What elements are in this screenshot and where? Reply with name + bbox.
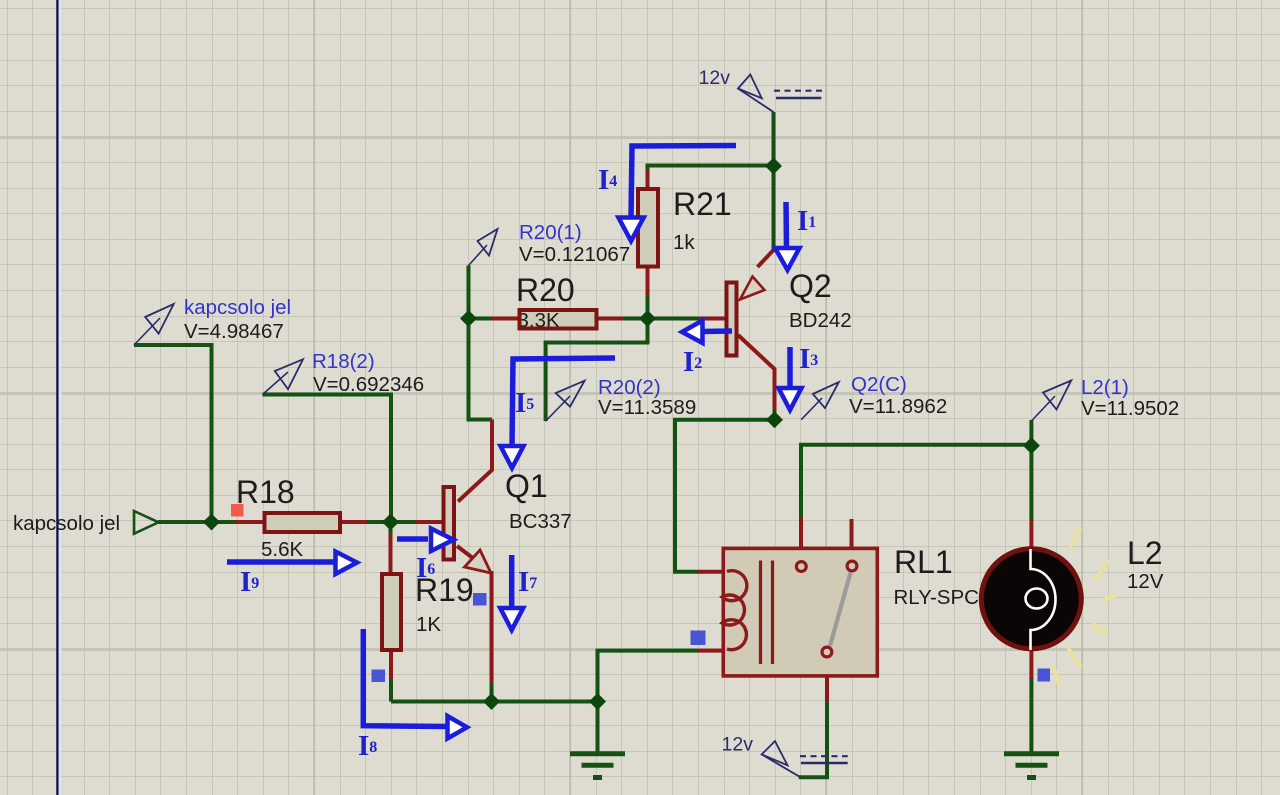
pin: relay switch bottom xyxy=(825,657,829,702)
svg-text:Q1: Q1 xyxy=(505,468,548,504)
wire: emitter rail to ground node xyxy=(391,700,598,704)
wire: relay switch to bottom power xyxy=(799,700,827,777)
pin: lamp bottom xyxy=(1029,649,1033,679)
node: ground rail xyxy=(589,693,606,710)
probe kapcsolo jel xyxy=(134,296,291,345)
arrow I1 xyxy=(775,202,816,270)
relay coil xyxy=(722,571,747,650)
pin: R21 top xyxy=(646,170,650,188)
pin: Q1 emitter diagonal xyxy=(457,546,478,562)
wire: coil node to relay coil top xyxy=(675,420,775,572)
svg-text:RL1: RL1 xyxy=(894,544,953,580)
wire: switched rail to relay pin1 xyxy=(801,445,1031,519)
svg-text:Q2(C): Q2(C) xyxy=(851,373,907,396)
Q1 emitter arrow (NPN, pointing out) xyxy=(465,550,492,573)
terminal kapcsolo jel xyxy=(13,511,159,535)
sheet border highlight (light blue) xyxy=(59,0,62,795)
svg-text:V=0.692346: V=0.692346 xyxy=(313,373,424,396)
svg-text:1k: 1k xyxy=(673,231,695,254)
node: R18 right / Q1 base xyxy=(382,514,399,531)
svg-text:kapcsolo jel: kapcsolo jel xyxy=(13,512,120,535)
svg-text:BD242: BD242 xyxy=(789,309,852,332)
pin: Q1 base xyxy=(415,520,442,524)
pin: R19 bottom xyxy=(389,651,393,679)
wire: R21 bottom to base node xyxy=(646,294,650,319)
wire: lamp top feed xyxy=(1029,445,1033,521)
wire: ground node up to relay coil bottom xyxy=(598,651,700,702)
relay RL1 body xyxy=(722,544,979,676)
pin: R18 right xyxy=(341,520,367,524)
transistor Q1 (BC337, NPN) xyxy=(444,468,572,573)
probe R20(1) xyxy=(469,221,631,266)
pin: relay coil bottom xyxy=(698,649,726,653)
svg-text:Q2: Q2 xyxy=(789,268,832,304)
node: input terminal junction xyxy=(203,514,220,531)
resistor R19 xyxy=(382,572,474,650)
svg-text:RLY-SPC: RLY-SPC xyxy=(894,586,980,609)
node: Q1 emitter rail xyxy=(483,693,500,710)
svg-text:R18(2): R18(2) xyxy=(312,350,375,373)
arrow I6 xyxy=(397,529,454,585)
pin: Q2 emitter diagonal xyxy=(758,250,774,267)
lamp filament xyxy=(1031,549,1056,650)
svg-text:1K: 1K xyxy=(416,613,441,636)
svg-text:R18: R18 xyxy=(236,474,295,510)
power 12v (bottom) xyxy=(722,734,848,777)
wire: Q1 emitter drop xyxy=(490,682,494,702)
wire: lamp bottom to ground xyxy=(1029,677,1033,752)
wire: R18 right to node xyxy=(366,520,391,524)
pin: R18 left xyxy=(236,520,264,524)
wire: node to R19 top xyxy=(389,522,393,547)
svg-text:V=11.3589: V=11.3589 xyxy=(598,396,696,419)
svg-text:BC337: BC337 xyxy=(509,510,572,533)
resistor R20 xyxy=(516,272,597,332)
svg-text:V=0.121067: V=0.121067 xyxy=(519,243,630,266)
svg-text:R20: R20 xyxy=(516,272,575,308)
svg-text:12V: 12V xyxy=(1127,570,1164,593)
svg-text:R20(1): R20(1) xyxy=(519,221,582,244)
relay terminal pin2 xyxy=(847,561,857,571)
wire: R20(2) probe stub from base node xyxy=(546,319,648,422)
wire: R20 left node stub xyxy=(469,317,494,321)
wire: R20(1) probe stub up xyxy=(467,266,471,319)
arrow I2 xyxy=(682,321,732,379)
probe R18(2) xyxy=(263,350,425,396)
pin: R20 right xyxy=(598,317,625,321)
marker: R18 origin (red) xyxy=(231,504,244,517)
arrow I3 xyxy=(779,343,819,410)
lamp L2 bulb xyxy=(981,549,1081,649)
node: R21 bottom / Q2 base xyxy=(639,310,656,327)
svg-text:L2(1): L2(1) xyxy=(1081,376,1129,399)
wire: top power vertical to Q2 emitter xyxy=(772,112,776,251)
wire: Q1 base from R18 node xyxy=(391,520,417,524)
pin: relay pin2 stub xyxy=(850,519,854,561)
svg-text:12v: 12v xyxy=(722,734,754,756)
relay core xyxy=(761,561,773,665)
svg-text:V=11.9502: V=11.9502 xyxy=(1081,397,1179,420)
pin: R21 bottom xyxy=(646,268,650,296)
pin: Q1 emitter drop xyxy=(490,571,494,684)
marker: R19 handle (blue) xyxy=(473,593,487,606)
arrow I7 xyxy=(500,555,537,630)
pin: Q2 base xyxy=(699,317,725,321)
marker: relay handle (blue) xyxy=(691,631,706,646)
Q2 emitter arrow (PNP, pointing into bar) xyxy=(740,277,765,300)
node: top power rail xyxy=(765,158,782,175)
svg-text:R21: R21 xyxy=(673,186,732,222)
probe L2(1) xyxy=(1031,376,1179,421)
node: R20 left xyxy=(460,310,477,327)
pin: Q1 collector xyxy=(458,420,492,502)
pin: Q2 collector diagonal xyxy=(738,335,775,409)
arrow I4 xyxy=(598,146,736,242)
wire: ground node down to ground xyxy=(596,702,600,754)
transistor Q2 (BD242, PNP) xyxy=(727,268,852,356)
arrow I8 xyxy=(358,629,467,762)
sheet border line (navy) xyxy=(56,0,58,795)
pin: lamp top xyxy=(1029,519,1033,549)
pin: relay coil top xyxy=(698,570,726,574)
arrow I5 xyxy=(501,358,616,468)
power 12v (top) xyxy=(699,67,823,112)
pin: R20 left xyxy=(492,317,519,321)
relay terminal pin1 xyxy=(796,562,806,572)
ground (left) xyxy=(570,754,625,778)
wire: input terminal to R18 xyxy=(158,520,238,524)
wire: top rail R21 to power node xyxy=(648,166,774,177)
svg-text:kapcsolo jel: kapcsolo jel xyxy=(184,296,291,319)
lamp glow rays xyxy=(1053,530,1115,683)
svg-text:V=11.8962: V=11.8962 xyxy=(849,395,947,418)
relay terminal common xyxy=(822,647,832,657)
svg-text:V=4.98467: V=4.98467 xyxy=(184,320,284,343)
pin: relay pin1 xyxy=(799,517,803,561)
marker: lamp handle (blue) xyxy=(1038,669,1051,682)
wire: R20 left node down to Q1 collector xyxy=(469,319,493,420)
wire: R19 bottom to emitter rail xyxy=(389,677,393,702)
wire: L2(1) probe stub xyxy=(1029,420,1033,445)
relay switch blade xyxy=(830,573,851,647)
resistor R21 xyxy=(638,186,732,267)
resistor R18 xyxy=(236,474,340,561)
wire: base node to Q2 base xyxy=(648,317,701,321)
pin: R19 top xyxy=(389,533,393,574)
probe R20(2) xyxy=(546,376,697,421)
wire: R20 right to base node xyxy=(622,317,648,321)
wire: R18(2) probe loop xyxy=(263,395,392,523)
svg-text:12v: 12v xyxy=(699,67,731,89)
svg-text:5.6K: 5.6K xyxy=(261,538,303,561)
ground (right, under lamp) xyxy=(1004,754,1059,778)
arrow I9 xyxy=(227,552,357,599)
wire: kapcsolo jel probe riser xyxy=(134,345,212,522)
marker: I8 handle (blue) xyxy=(372,670,386,683)
wire: Q2 collector to coil node xyxy=(773,407,777,420)
node: lamp top rail xyxy=(1023,437,1040,454)
probe Q2(C) xyxy=(801,373,947,420)
node: Q2 collector xyxy=(766,411,783,428)
svg-text:L2: L2 xyxy=(1127,535,1163,571)
